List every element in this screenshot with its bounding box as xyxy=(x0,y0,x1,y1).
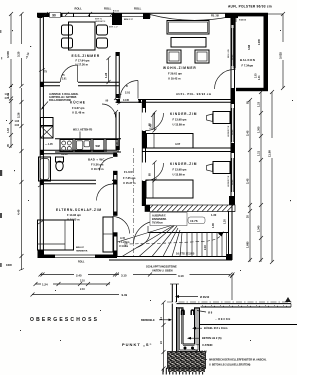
svg-text:ROLL: ROLL xyxy=(232,179,234,185)
bath south wall xyxy=(40,180,117,183)
svg-text:2.18: 2.18 xyxy=(204,245,207,250)
right dim line D balcony xyxy=(278,12,285,90)
rebar circles bottom xyxy=(184,347,195,350)
svg-text:BAD + WC: BAD + WC xyxy=(88,158,105,162)
left dim line 2 lower xyxy=(17,88,24,271)
svg-text:HERMETIK: HERMETIK xyxy=(95,21,106,23)
svg-text:ROLL: ROLL xyxy=(104,7,112,11)
stair winders xyxy=(118,224,183,257)
stair walk line xyxy=(124,232,224,245)
bad label xyxy=(88,158,105,172)
svg-text:2.10: 2.10 xyxy=(80,280,85,283)
wall stub above slab xyxy=(170,284,179,302)
hall 75 rotated xyxy=(113,179,117,182)
level line dash-dot xyxy=(167,297,292,302)
eltern label xyxy=(56,208,102,222)
svg-text:IM BEREICH DER KELLERFENSTER M: IM BEREICH DER KELLERFENSTER M. ANSCHL xyxy=(209,359,267,362)
wohn table xyxy=(171,38,206,48)
svg-text:ESS-ZIMMER: ESS-ZIMMER xyxy=(72,54,101,58)
balkon label xyxy=(240,58,255,68)
svg-text:11.98: 11.98 xyxy=(267,150,271,157)
svg-text:AUFL. POL. 96/93 cm: AUFL. POL. 96/93 cm xyxy=(176,92,212,96)
wall wohn/kinder1 xyxy=(116,99,236,104)
svg-text:U-STEIN: U-STEIN xyxy=(202,343,213,347)
svg-text:4.40: 4.40 xyxy=(17,209,21,215)
ess chairs xyxy=(62,25,108,48)
svg-text:1.30: 1.30 xyxy=(211,213,217,217)
svg-text:U 11.48 m: U 11.48 m xyxy=(72,111,85,115)
kinder2 label xyxy=(170,162,197,177)
brh hermetik top small xyxy=(95,19,119,29)
detail top dim line xyxy=(230,274,234,300)
svg-text:OBERGESCHOSS: OBERGESCHOSS xyxy=(30,317,99,323)
eltern door arc 2 xyxy=(113,217,130,234)
svg-text:U 13.89 m: U 13.89 m xyxy=(173,173,186,177)
detail labels right xyxy=(187,311,267,367)
ess door labels xyxy=(62,75,67,81)
kueche counter row xyxy=(55,139,121,152)
svg-text:KINDER-ZIM: KINDER-ZIM xyxy=(170,162,197,166)
west wall 75 tick xyxy=(39,69,47,74)
svg-text:3.43: 3.43 xyxy=(149,124,152,129)
east wall xyxy=(231,17,235,212)
svg-text:F 29.61 qm: F 29.61 qm xyxy=(168,72,183,76)
svg-text:BALKON: BALKON xyxy=(240,58,255,62)
bath north wall xyxy=(40,150,117,153)
chimney small texts xyxy=(113,11,134,22)
svg-text:F 13.98 qm: F 13.98 qm xyxy=(173,168,188,172)
east window kinder1 xyxy=(232,108,234,142)
east window kinder2 xyxy=(232,158,234,192)
svg-text:1.21: 1.21 xyxy=(256,150,260,156)
balcony door arc xyxy=(215,69,237,89)
eltern window roll label xyxy=(78,261,85,264)
svg-text:1.01: 1.01 xyxy=(5,94,10,96)
kinder1 door 88 xyxy=(149,123,152,126)
FB label xyxy=(211,15,219,18)
rotated window texts east xyxy=(228,48,234,187)
svg-text:HERMETIK: HERMETIK xyxy=(228,125,230,137)
kueche note xyxy=(41,93,79,110)
svg-text:ROLLADENSTUREI: ROLLADENSTUREI xyxy=(49,99,71,102)
left tiny labels xyxy=(5,94,24,128)
kinder1 label xyxy=(170,112,197,127)
eltern door arc from bath wall gap xyxy=(97,184,113,201)
svg-text:3.15: 3.15 xyxy=(121,274,127,278)
svg-text:2.45: 2.45 xyxy=(245,130,249,136)
kueche door 90 xyxy=(106,96,119,114)
bimsdiele strip xyxy=(172,304,176,352)
ess table xyxy=(69,22,96,50)
svg-text:1.28: 1.28 xyxy=(104,72,108,78)
slab concrete dots xyxy=(202,305,290,307)
svg-text:U 15.37 m: U 15.37 m xyxy=(123,181,136,185)
kinder1 bed xyxy=(147,134,194,149)
kinder2 desk xyxy=(207,162,231,174)
kueche upper cabinet xyxy=(41,118,54,126)
svg-text:ROLL: ROLL xyxy=(134,7,142,11)
hall dim marks upper xyxy=(117,94,122,105)
svg-text:3.88: 3.88 xyxy=(247,44,251,50)
balcony window wall xyxy=(233,18,235,68)
svg-text:4.63: 4.63 xyxy=(15,124,20,127)
decke underside line xyxy=(200,324,298,326)
svg-text:BRH 87: BRH 87 xyxy=(76,247,85,249)
bottom row 2 xyxy=(34,280,111,292)
wohn door arc xyxy=(120,81,138,99)
svg-text:ELTERN-SCHLAF-ZIM: ELTERN-SCHLAF-ZIM xyxy=(56,208,102,212)
obergeschoss title xyxy=(30,317,99,323)
svg-text:U 17.30 m: U 17.30 m xyxy=(76,63,89,67)
decke slab lines xyxy=(177,304,292,307)
fb-06 label xyxy=(61,154,68,156)
bimsdiele label xyxy=(141,319,172,322)
svg-text:70/140cm: 70/140cm xyxy=(152,222,163,225)
ess interior dim 1.28 xyxy=(104,56,111,84)
svg-text:BRH 1.17: BRH 1.17 xyxy=(124,19,134,21)
south hatched wall kinder2 xyxy=(145,205,235,212)
wohn door dims xyxy=(123,85,131,102)
flur label xyxy=(123,170,136,185)
top wall small ticks left xyxy=(44,12,114,16)
svg-text:BETON LB 2 (S): BETON LB 2 (S) xyxy=(202,336,222,340)
svg-text:2.26: 2.26 xyxy=(17,112,21,118)
svg-text:1.01: 1.01 xyxy=(259,75,261,80)
svg-text:0.445: 0.445 xyxy=(123,99,130,102)
svg-text:1.685: 1.685 xyxy=(245,241,249,248)
kueche fridge xyxy=(41,126,54,138)
svg-text:U 13.89 m: U 13.89 m xyxy=(173,123,186,127)
punkt s title xyxy=(122,342,153,347)
kinder2 door 88 xyxy=(149,173,152,176)
svg-text:A=R: A=R xyxy=(120,237,125,240)
svg-text:BRH 1.17: BRH 1.17 xyxy=(109,27,119,29)
1.30 dim stair xyxy=(211,213,217,217)
right dim line B xyxy=(256,90,263,262)
kinder room mid dim line xyxy=(149,113,155,130)
kueche wm xyxy=(93,140,104,152)
svg-text:90: 90 xyxy=(52,14,56,18)
svg-text:BIMSDIELE: BIMSDIELE xyxy=(141,319,155,322)
svg-text:U 10.70 m: U 10.70 m xyxy=(91,167,104,171)
svg-text:ROLL: ROLL xyxy=(78,261,85,264)
right dim line A lower xyxy=(245,209,252,262)
svg-text:U 4.68m: U 4.68m xyxy=(119,245,128,248)
u-stein block xyxy=(177,308,201,352)
svg-text:ROLL: ROLL xyxy=(232,54,234,60)
bath wc xyxy=(56,157,64,171)
svg-text:75: 75 xyxy=(44,70,47,74)
stairwell south wall xyxy=(109,254,232,260)
detail left dim xyxy=(159,301,166,373)
svg-text:Ø 8: Ø 8 xyxy=(208,311,213,315)
svg-text:1.24: 1.24 xyxy=(42,283,48,287)
north wall solid segment left with 90 box xyxy=(37,12,62,17)
svg-text:PUNKT „S“: PUNKT „S“ xyxy=(122,342,153,347)
bottom row 3 total xyxy=(31,293,128,298)
left edge specks xyxy=(0,30,2,267)
wohn-zimmer label xyxy=(163,66,197,81)
kueche door arc to ess xyxy=(61,65,78,82)
balkon 3.88 dim xyxy=(247,44,251,50)
stair flight edge xyxy=(148,226,229,233)
svg-text:4.07: 4.07 xyxy=(175,142,181,146)
svg-text:— 1.05: — 1.05 xyxy=(45,143,53,146)
schlupf text xyxy=(146,265,177,273)
svg-text:Ø 26/10: Ø 26/10 xyxy=(200,295,210,299)
svg-text:340R: 340R xyxy=(6,264,12,267)
svg-text:2.45: 2.45 xyxy=(76,274,82,278)
svg-text:F 1.23qm: F 1.23qm xyxy=(119,241,129,244)
window ess-zimmer xyxy=(62,13,112,17)
scan specks xyxy=(6,30,293,341)
svg-text:HERMETIK: HERMETIK xyxy=(76,251,88,253)
NE pier xyxy=(225,13,238,18)
svg-text:WS 2. HETEN-FB: WS 2. HETEN-FB xyxy=(73,129,93,132)
hall west wall lower xyxy=(113,153,117,257)
east window wohn xyxy=(232,28,234,66)
svg-text:WOHN-ZIMMER: WOHN-ZIMMER xyxy=(163,66,197,70)
chimney pier xyxy=(112,13,122,25)
eltern bed xyxy=(38,220,74,250)
wohn chair 1 xyxy=(167,50,181,63)
svg-text:B: B xyxy=(126,85,128,88)
hall 1.70 rotated xyxy=(116,142,119,147)
bad door arc xyxy=(100,157,114,170)
2.76 box xyxy=(188,217,205,224)
hall west wall door gaps xyxy=(113,157,118,233)
left dim line 1 lower xyxy=(7,88,13,148)
door gap whiteouts xyxy=(142,113,146,181)
svg-text:16 STG 17,2/25: 16 STG 17,2/25 xyxy=(176,252,195,256)
phi 26/10 label xyxy=(175,295,210,299)
svg-text:FLUR: FLUR xyxy=(124,170,134,174)
svg-text:1.305: 1.305 xyxy=(256,126,260,133)
kinder1 desk xyxy=(207,112,231,124)
wall wohn west / hall west upper xyxy=(116,52,119,150)
wall ess/kueche xyxy=(40,82,119,85)
masonry hatch block xyxy=(168,352,206,369)
right dim line A xyxy=(245,98,252,211)
svg-text:ROLL: ROLL xyxy=(232,129,234,135)
stair dims rotated xyxy=(204,219,227,250)
svg-text:WM: WM xyxy=(96,145,100,148)
ausspar box stair xyxy=(150,213,187,226)
aufl polster top label xyxy=(228,5,272,9)
svg-text:F 7.34qm: F 7.34qm xyxy=(242,64,254,68)
svg-text:U 14.95 m: U 14.95 m xyxy=(67,217,80,221)
bath tub xyxy=(39,157,51,181)
kinder2 bed xyxy=(146,180,193,198)
svg-text:2.01: 2.01 xyxy=(125,91,131,95)
svg-text:U 19.42 m: U 19.42 m xyxy=(168,77,181,81)
svg-text:2.10: 2.10 xyxy=(80,288,85,291)
svg-text:4.01: 4.01 xyxy=(5,97,10,100)
svg-text:← D E C K E: ← D E C K E xyxy=(215,317,231,321)
right dim line C long xyxy=(267,90,274,264)
svg-text:1.08: 1.08 xyxy=(212,223,215,228)
aufl pol label xyxy=(176,92,212,96)
svg-text:3.20: 3.20 xyxy=(17,51,21,57)
balcony walls xyxy=(236,13,268,91)
balcony top dim ticks xyxy=(236,14,283,22)
brh hermetik eltern xyxy=(76,247,88,253)
section line dash-dot xyxy=(133,148,135,258)
1.05 label xyxy=(45,143,53,146)
svg-text:KÜCHE: KÜCHE xyxy=(70,100,86,105)
bottom row 1 xyxy=(39,272,235,278)
svg-text:1.23: 1.23 xyxy=(256,101,260,107)
svg-text:AUFL POLSTER 96/93 cm: AUFL POLSTER 96/93 cm xyxy=(228,5,272,9)
svg-text:FB. 2Ø: FB. 2Ø xyxy=(211,15,219,18)
svg-text:N 26/10: N 26/10 xyxy=(239,20,247,22)
svg-text:F 17.94 qm: F 17.94 qm xyxy=(76,58,91,62)
kueche box xyxy=(106,140,118,153)
north wall top line xyxy=(37,12,268,14)
svg-text:1.345: 1.345 xyxy=(256,225,260,232)
svg-text:F 5.36 qm: F 5.36 qm xyxy=(91,163,104,167)
svg-text:1.63: 1.63 xyxy=(7,128,10,133)
ess-zimmer label xyxy=(72,54,101,67)
left dim line 2 xyxy=(17,12,24,88)
eltern wardrobe xyxy=(103,217,113,252)
east wall piers xyxy=(229,17,235,212)
svg-text:F 13.98 qm: F 13.98 qm xyxy=(173,118,188,122)
hall east wall xyxy=(142,103,145,206)
left dim line 1 xyxy=(6,12,13,88)
svg-text:KINDER-ZIM: KINDER-ZIM xyxy=(170,112,197,116)
svg-text:2.365: 2.365 xyxy=(259,39,261,45)
svg-text:F 7.35 qm: F 7.35 qm xyxy=(123,176,136,180)
svg-text:1.20: 1.20 xyxy=(224,219,227,224)
ws heten label xyxy=(73,129,93,139)
svg-text:F 9.67 qm: F 9.67 qm xyxy=(72,106,85,110)
a-r label xyxy=(119,237,129,248)
svg-text:2.45: 2.45 xyxy=(245,178,249,184)
svg-text:HERMETIK: HERMETIK xyxy=(228,175,230,187)
svg-text:2.05: 2.05 xyxy=(256,73,258,78)
svg-text:BRH 415: BRH 415 xyxy=(228,48,230,58)
balkon right rotated labels xyxy=(256,39,262,80)
wide opening arc wohn xyxy=(150,13,231,20)
340r text xyxy=(6,264,12,267)
window wohn west xyxy=(122,13,143,16)
wohn sideboard xyxy=(167,21,209,35)
svg-text:ROLL: ROLL xyxy=(75,7,83,11)
kueche door arc xyxy=(102,104,116,118)
stair door arc xyxy=(134,221,158,245)
eltern south wall xyxy=(44,255,117,259)
roll labels top xyxy=(75,7,142,11)
svg-text:FB-Ø6: FB-Ø6 xyxy=(61,154,68,156)
svg-text:3.535: 3.535 xyxy=(6,51,10,58)
kinder1 dim 4.07 xyxy=(175,142,181,146)
eltern west ticks xyxy=(38,183,44,224)
svg-text:B 1.01: B 1.01 xyxy=(113,11,120,13)
svg-text:±2.76: ±2.76 xyxy=(190,219,198,223)
wohn chair 2 xyxy=(195,50,209,63)
svg-text:9.49: 9.49 xyxy=(122,293,128,297)
svg-text:2.01: 2.01 xyxy=(62,79,67,81)
stair text xyxy=(176,252,195,256)
svg-text:1.63: 1.63 xyxy=(15,121,20,123)
svg-text:F 14.92 qm: F 14.92 qm xyxy=(67,213,82,217)
west wall piers xyxy=(38,13,45,258)
soil hatch row xyxy=(163,368,206,374)
diagonal 1.10 xyxy=(24,51,30,59)
stirrup hooks top xyxy=(181,309,195,315)
svg-text:SCHLUPFTUNGSSTEINE: SCHLUPFTUNGSSTEINE xyxy=(146,265,177,269)
svg-text:V. BETON LB 2 (S) (KELLERSTEIN: V. BETON LB 2 (S) (KELLERSTEIN) xyxy=(209,364,251,367)
stair treads xyxy=(187,233,227,257)
svg-text:1.70: 1.70 xyxy=(116,142,119,147)
svg-text:3.025: 3.025 xyxy=(278,52,282,59)
stairwell east wall xyxy=(229,205,233,260)
svg-text:3.10: 3.10 xyxy=(178,274,184,278)
west wall xyxy=(40,13,43,258)
wall kinder1/kinder2 xyxy=(142,148,235,152)
kueche label xyxy=(70,100,86,115)
svg-text:UNTEN U. OBEN: UNTEN U. OBEN xyxy=(152,269,173,273)
kueche stove xyxy=(60,140,73,152)
pier xyxy=(143,13,150,19)
kinder1 door arc xyxy=(146,111,164,133)
kinder2 door arc xyxy=(146,161,164,183)
kueche sink xyxy=(75,140,91,152)
